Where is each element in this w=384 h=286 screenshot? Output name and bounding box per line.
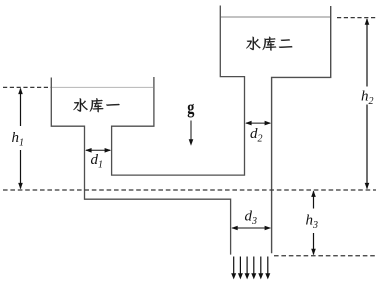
dimension arrow h1 (left, water level 1 to datum) [20,89,22,189]
dimension arrow h3 (right, datum to jet exit) [313,191,315,254]
outflow jet arrow 2 [239,257,241,274]
dimension arrow h2 (right, water level 2 to datum) [366,19,368,189]
reservoir 1 tank: right wall, bottom-right shelf, pipe d1 right wall, duct top, pipe d2 left wall, reservoir 2 bottom-left shelf, reservoir 2 left wall [112,6,245,176]
reservoir 1 water level dashed extension (left) [3,86,51,88]
outflow jet arrow 6 [267,257,269,274]
svg-text:d3: d3 [245,209,258,228]
label reservoir 1 (水库一) [73,98,87,111]
reservoir 1 water surface line (inside tank) [52,86,153,88]
outflow jet arrow 1 [233,257,235,274]
gravity arrow (downward) [190,121,192,140]
dimension arrow d1 (pipe 1 diameter) [86,149,110,151]
reservoir 1 tank: left wall, bottom-left shelf, pipe d1 left wall, duct bottom, pipe d3 left wall [51,78,230,255]
svg-text:h2: h2 [361,89,374,108]
dimension arrow d3 (outlet diameter) [232,227,270,229]
svg-text:g: g [187,97,195,118]
outflow jet arrow 4 [253,257,255,274]
outflow jet arrow 5 [260,257,262,274]
svg-text:h3: h3 [306,213,319,232]
label reservoir 2 (水库二) [246,37,260,50]
outflow jet arrow 3 [246,257,248,274]
dimension arrow d2 (pipe 2 diameter) [246,122,270,124]
reservoir 2 water surface line (inside tank) [221,16,330,18]
datum dashed line (outlet level, full width) [3,189,376,191]
svg-text:d2: d2 [250,126,263,145]
reservoir 2 water level dashed extension (right) [337,17,376,19]
reservoir 2 tank: right wall, bottom-right shelf, pipe d2/d3 right wall [272,6,331,253]
svg-text:h1: h1 [12,130,25,149]
lower dashed line (jet exit level, right side) [274,255,376,257]
svg-text:d1: d1 [91,152,104,171]
